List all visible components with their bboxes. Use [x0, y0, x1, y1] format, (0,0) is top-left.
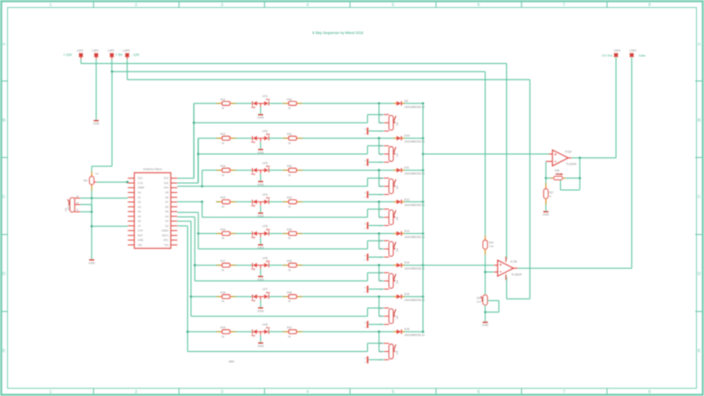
- pot P1 wiper stub: [384, 122, 389, 124]
- pot P6 wiper stub: [384, 280, 389, 282]
- frame row ticks: [2, 80, 8, 82]
- svg-text:4: 4: [306, 2, 309, 7]
- wire R11 bottom down: [91, 191, 93, 259]
- svg-text:5.0V: 5.0V: [138, 230, 143, 233]
- wire R10 A: [80, 197, 92, 199]
- resistor R13 row 2: [216, 137, 220, 139]
- wire jumper to pot E: [368, 130, 383, 132]
- wire LED to resistor R27: [269, 331, 283, 333]
- node row 2 wiper junction: [378, 137, 380, 139]
- wire row 5: [198, 233, 216, 235]
- svg-text:3.3V: 3.3V: [138, 182, 143, 185]
- jumper pin J1: [367, 128, 369, 135]
- wire feedback vertical: [579, 158, 581, 190]
- wire row 7 to LED: [236, 296, 252, 298]
- svg-text:TX0: TX0: [164, 244, 169, 247]
- svg-text:3: 3: [221, 2, 224, 7]
- svg-text:TL062P: TL062P: [566, 162, 577, 166]
- svg-text:E: E: [2, 348, 5, 353]
- pot P8 A riser: [367, 343, 369, 351]
- resistor R22 row 3: [283, 169, 287, 171]
- wire LED to resistor R23: [269, 201, 283, 203]
- svg-text:IC1B: IC1B: [510, 260, 517, 264]
- jumper pin J4: [367, 222, 369, 229]
- led pair LD6: [251, 263, 253, 267]
- svg-text:1: 1: [49, 389, 52, 394]
- wire junction down to wiper: [378, 332, 380, 352]
- pot P6 A riser: [367, 273, 369, 281]
- diode D12: [393, 201, 395, 203]
- node bus row 3: [422, 169, 424, 171]
- svg-text:4: 4: [306, 389, 309, 394]
- wire row 6: [195, 264, 216, 266]
- svg-text:R25: R25: [287, 259, 292, 263]
- resistor R19: [484, 235, 486, 237]
- wire row 3: [202, 169, 216, 171]
- svg-text:8 Step Sequencer by Wknot 2018: 8 Step Sequencer by Wknot 2018: [312, 31, 363, 35]
- svg-text:2: 2: [135, 2, 138, 7]
- wire row 6 to LED: [236, 264, 252, 266]
- ground LD7: [260, 300, 262, 307]
- led pair LD4: [251, 200, 253, 204]
- svg-text:GND2: GND2: [162, 230, 170, 233]
- potentiometer P5: [389, 242, 393, 257]
- wire diode to bus row 5: [405, 233, 423, 235]
- wire row 2 to junction: [303, 137, 394, 139]
- svg-text:R23: R23: [287, 196, 292, 200]
- pot P4 A riser: [367, 209, 369, 217]
- svg-text:RX1: RX1: [164, 239, 169, 242]
- svg-text:D10: D10: [404, 134, 410, 138]
- potentiometer P8: [389, 344, 393, 359]
- resistor R27: [545, 178, 547, 182]
- resistor R14 row 3: [216, 169, 220, 171]
- resistor R18 row 7: [216, 296, 220, 298]
- svg-text:GND: GND: [88, 261, 94, 265]
- wire row 2: [198, 137, 216, 139]
- svg-text:D12: D12: [404, 197, 410, 201]
- wire row 5 to junction: [303, 233, 394, 235]
- wire R11 wiper to arduino: [94, 181, 97, 183]
- svg-text:D9: D9: [404, 99, 408, 103]
- svg-text:GND: GND: [93, 122, 99, 126]
- wire diode to bus row 3: [405, 169, 423, 171]
- wire junction down to wiper: [378, 170, 380, 186]
- ground LD2: [260, 142, 262, 149]
- wire jumper to pot E: [368, 256, 383, 258]
- svg-text:GND: GND: [257, 116, 263, 120]
- svg-text:D12: D12: [164, 177, 169, 180]
- wire diode to bus row 6: [405, 264, 423, 266]
- svg-text:7: 7: [563, 2, 566, 7]
- jumper pin J6: [367, 286, 369, 293]
- svg-text:LSP4: LSP4: [614, 48, 621, 52]
- svg-text:GND: GND: [543, 213, 549, 217]
- ground LD3: [260, 174, 262, 181]
- wire IC1B output: [513, 267, 517, 269]
- node row 6 wiper junction: [378, 264, 380, 266]
- pot P4 wiper stub: [384, 216, 389, 218]
- wire row 4 to LED: [236, 201, 252, 203]
- svg-text:R17: R17: [221, 259, 226, 263]
- wire stage 3 from arduino pin: [177, 185, 202, 187]
- svg-text:GND: GND: [257, 150, 263, 154]
- svg-text:D13: D13: [404, 229, 410, 233]
- wire jumper to pot E: [368, 225, 383, 227]
- wire R28 wiper loop: [560, 180, 562, 190]
- svg-text:R19: R19: [221, 326, 226, 330]
- resistor R16 row 5: [216, 233, 220, 235]
- pot P8 wiper stub: [384, 351, 389, 353]
- wire junction down to wiper: [378, 234, 380, 249]
- wire junction down to wiper: [378, 103, 380, 122]
- ground LD1: [260, 107, 262, 114]
- node row 7 wiper junction: [378, 295, 380, 297]
- svg-text:D16: D16: [404, 327, 410, 331]
- IC1B power pin stubs: [505, 256, 507, 262]
- wire stage 6 from arduino pin: [177, 216, 195, 218]
- svg-text:R28: R28: [555, 169, 560, 172]
- wire jumper to pot E: [368, 359, 383, 361]
- svg-text:GND: GND: [257, 182, 263, 186]
- node row 4 wiper junction: [378, 201, 380, 203]
- node +5V tap: [111, 70, 113, 72]
- potentiometer P4: [389, 210, 393, 225]
- svg-text:R26: R26: [287, 291, 292, 295]
- node bus row 5: [422, 232, 424, 234]
- svg-text:R20: R20: [287, 97, 292, 101]
- svg-text:LSP3: LSP3: [108, 49, 115, 53]
- ground LD4: [260, 205, 262, 212]
- jumper pin J7: [367, 321, 369, 328]
- wire junction down to wiper: [378, 297, 380, 317]
- svg-text:LSP1: LSP1: [77, 49, 84, 53]
- trimmer R29: [483, 295, 487, 305]
- pot P1 A riser: [367, 115, 369, 123]
- svg-text:1N4148DO35-10: 1N4148DO35-10: [404, 333, 425, 337]
- wire diode to bus row 1: [405, 102, 423, 104]
- svg-text:6: 6: [477, 389, 480, 394]
- svg-text:1: 1: [49, 2, 52, 7]
- svg-text:GND: GND: [257, 214, 263, 218]
- svg-text:R13: R13: [221, 132, 226, 136]
- wire CV out vertical: [615, 57, 617, 158]
- wire jumper to pot E: [368, 161, 383, 163]
- wire node to R28: [546, 177, 550, 179]
- svg-text:5: 5: [392, 2, 395, 7]
- svg-text:R10: R10: [69, 205, 71, 210]
- svg-text:R16: R16: [221, 227, 226, 231]
- ground LD5: [260, 237, 262, 244]
- wire LSP2 to ground: [95, 57, 97, 59]
- wire ladder to arduino lower pin: [92, 225, 128, 227]
- jumper pin J2: [367, 159, 369, 166]
- resistor R26 row 7: [283, 296, 287, 298]
- frame column ticks: [93, 2, 95, 8]
- led pair LD8: [251, 330, 253, 334]
- svg-text:1N4148DO35-10: 1N4148DO35-10: [404, 105, 425, 109]
- pot P7 A riser: [367, 308, 369, 316]
- wire jumper to pot E: [368, 288, 383, 290]
- svg-text:1N4148DO35-10: 1N4148DO35-10: [404, 172, 425, 176]
- node row 8 wiper junction: [378, 331, 380, 333]
- trimmer R28: [550, 177, 552, 179]
- wire jumper to pot E: [368, 194, 383, 196]
- wire +5V down to trimmer ladder: [111, 72, 113, 167]
- potentiometer P2: [389, 147, 393, 162]
- wire R28 right to feedback: [566, 177, 580, 179]
- led pair LD1: [251, 101, 253, 105]
- wire CV bus vertical: [422, 103, 424, 331]
- wire +12V rail: [80, 57, 82, 59]
- node bus row 6: [422, 264, 424, 266]
- wire +5V rail down to R19: [484, 72, 486, 236]
- svg-text:D11: D11: [164, 182, 169, 185]
- wire row 1: [194, 102, 216, 104]
- wire LED to resistor R22: [269, 169, 283, 171]
- arduino pins: [128, 177, 135, 179]
- svg-text:+ 12V: + 12V: [63, 53, 73, 57]
- svg-text:D11: D11: [404, 166, 409, 170]
- pot P2 wiper stub: [384, 153, 389, 155]
- resistor R25 row 6: [283, 264, 287, 266]
- wire stage 4 from arduino pin: [177, 201, 202, 203]
- svg-text:RST: RST: [138, 234, 143, 237]
- wire IC1A inv branch: [545, 161, 547, 178]
- node R29 loop: [484, 311, 486, 313]
- wire row 1 to junction: [303, 102, 394, 104]
- diode D10: [393, 137, 395, 139]
- resistor R17 row 6: [216, 264, 220, 266]
- svg-text:TL062P: TL062P: [511, 272, 522, 276]
- svg-text:AREF: AREF: [138, 187, 145, 190]
- svg-text:8: 8: [648, 2, 651, 7]
- svg-text:R19: R19: [489, 242, 494, 245]
- resistor R15 row 4: [216, 201, 220, 203]
- wire junction down to wiper: [378, 138, 380, 154]
- led pair LD7: [251, 295, 253, 299]
- svg-text:GND: GND: [257, 246, 263, 250]
- potentiometer R10: [70, 198, 75, 212]
- wire row 7: [191, 296, 216, 298]
- wire ladder to arduino A-pin: [92, 197, 128, 199]
- wire stage 8 from arduino pin: [177, 225, 187, 227]
- wire R19 down to IC1B node: [484, 255, 486, 295]
- pot P5 A riser: [367, 241, 369, 249]
- ground LSP2: [94, 120, 99, 122]
- node row 1 wiper junction: [378, 102, 380, 104]
- wire R10 wiper: [80, 204, 92, 206]
- resistor R21 row 2: [283, 137, 287, 139]
- wire junction down to wiper: [378, 265, 380, 281]
- svg-text:R11: R11: [84, 180, 89, 183]
- wire R29 wiper loop: [487, 300, 499, 302]
- jumper pin J5: [367, 254, 369, 261]
- pot P3 A riser: [367, 178, 369, 186]
- node pot R10 bottom: [91, 211, 93, 213]
- svg-text:- 12V: - 12V: [131, 53, 140, 57]
- svg-text:RST1: RST1: [162, 234, 169, 237]
- svg-text:LSP2: LSP2: [92, 49, 99, 53]
- wire diode to bus row 4: [405, 201, 423, 203]
- svg-text:R27: R27: [287, 326, 292, 330]
- wire +5V rail: [111, 57, 113, 59]
- op-amp IC1B: [494, 264, 498, 266]
- svg-text:1N4148DO35-10: 1N4148DO35-10: [404, 267, 425, 271]
- svg-text:1N4148DO35-10: 1N4148DO35-10: [404, 203, 425, 207]
- node bus row 8: [422, 331, 424, 333]
- node CV bus tap: [422, 153, 424, 155]
- svg-text:2: 2: [135, 389, 138, 394]
- svg-text:LD6: LD6: [262, 256, 268, 260]
- diode D16: [393, 331, 395, 333]
- wire diode to bus row 2: [405, 137, 423, 139]
- svg-text:1N4148DO35-10: 1N4148DO35-10: [404, 235, 425, 239]
- svg-text:LD2: LD2: [262, 129, 268, 133]
- wire row 2 to LED: [236, 137, 252, 139]
- resistor R12 row 1: [216, 102, 220, 104]
- wire LED to resistor R24: [269, 233, 283, 235]
- jumper pin J8: [367, 356, 369, 363]
- resistor R27 row 8: [283, 331, 287, 333]
- wire diode to bus row 8: [405, 331, 423, 333]
- wire row 3 to junction: [303, 169, 394, 171]
- ground IC1B divider: [483, 321, 488, 323]
- resistor R20 row 1: [283, 102, 287, 104]
- svg-text:R21: R21: [287, 132, 292, 136]
- node bus row 4: [422, 201, 424, 203]
- wire LED to resistor R25: [269, 264, 283, 266]
- node feedback to R28: [579, 177, 581, 179]
- svg-text:3: 3: [221, 389, 224, 394]
- R28 adjust arrow: [556, 173, 561, 175]
- node bus row 7: [422, 295, 424, 297]
- svg-text:R18: R18: [221, 291, 226, 295]
- node pot R10 top: [91, 197, 93, 199]
- wire stage 2 from arduino pin: [177, 182, 198, 184]
- diode D15: [393, 296, 395, 298]
- op-amp IC1A: [549, 153, 553, 155]
- node row 3 wiper junction: [378, 169, 380, 171]
- wire row 1 to LED: [236, 102, 252, 104]
- wire row 3 to LED: [236, 169, 252, 171]
- diode D11: [393, 169, 395, 171]
- svg-text:R27: R27: [549, 193, 554, 195]
- arduino nano IC1 box: [134, 173, 170, 249]
- ground LD8: [260, 335, 262, 342]
- wire R27 to ground: [545, 205, 547, 211]
- ground trimmer ladder: [89, 259, 94, 261]
- svg-text:7: 7: [563, 389, 566, 394]
- node IC1B inverting input: [484, 271, 486, 273]
- wire row 8: [188, 331, 216, 333]
- svg-text:5: 5: [392, 389, 395, 394]
- wire row 6 to junction: [303, 264, 394, 266]
- node bus row 2: [422, 137, 424, 139]
- wire row 8 to junction: [303, 331, 394, 333]
- svg-text:GND: GND: [482, 323, 488, 327]
- pot P5 wiper stub: [384, 248, 389, 250]
- svg-text:VIN: VIN: [138, 244, 142, 247]
- node row 5 wiper junction: [378, 232, 380, 234]
- wire LED to resistor R21: [269, 137, 283, 139]
- resistor R23 row 4: [283, 201, 287, 203]
- svg-text:R29: R29: [477, 298, 482, 300]
- svg-text:E: E: [698, 348, 701, 353]
- ground R27: [543, 211, 548, 213]
- wire jumper to pot E: [368, 323, 383, 325]
- pot P3 wiper stub: [384, 185, 389, 187]
- node IC1A feedback: [579, 157, 581, 159]
- wire stage 1 from arduino pin: [177, 177, 194, 179]
- wire stage 7 from arduino pin: [177, 220, 191, 222]
- svg-text:AB3: AB3: [229, 360, 235, 364]
- wire row 7 to junction: [303, 296, 394, 298]
- wire IC1B V- down loop: [506, 277, 508, 299]
- svg-text:LD3: LD3: [262, 161, 268, 165]
- ground LD6: [260, 269, 262, 276]
- potentiometer P3: [389, 179, 393, 194]
- wire row 8 to LED: [236, 331, 252, 333]
- wire R10 E: [80, 211, 92, 213]
- led pair LD5: [251, 231, 253, 235]
- svg-text:R14: R14: [221, 164, 226, 168]
- wire node to IC1B inv input: [485, 271, 494, 273]
- trimmer R11: [91, 171, 93, 173]
- svg-text:LD8: LD8: [262, 322, 268, 326]
- wire LED to resistor R20: [269, 102, 283, 104]
- wire R29 to ground: [484, 305, 486, 312]
- svg-text:GND: GND: [257, 277, 263, 281]
- wire -12V rail: [126, 57, 128, 59]
- svg-text:6: 6: [477, 2, 480, 7]
- svg-text:+ 5V: + 5V: [115, 53, 123, 57]
- node bus row 1: [422, 102, 424, 104]
- wire bus row6 to IC1B input: [423, 264, 494, 266]
- diode D13: [393, 233, 395, 235]
- svg-text:R24: R24: [287, 227, 292, 231]
- wire LED to resistor R26: [269, 296, 283, 298]
- resistor R19 row 8: [216, 331, 220, 333]
- wire IC1A output: [568, 157, 571, 159]
- svg-text:B: B: [2, 118, 5, 123]
- led pair LD3: [251, 168, 253, 172]
- node R27 R28 junction: [545, 177, 547, 179]
- svg-text:D10: D10: [164, 187, 169, 190]
- resistor R24 row 5: [283, 233, 287, 235]
- svg-text:LD4: LD4: [262, 192, 268, 196]
- svg-text:Arduino Nano: Arduino Nano: [143, 167, 162, 171]
- svg-text:CV Out: CV Out: [602, 53, 612, 57]
- svg-text:D13: D13: [138, 177, 143, 180]
- svg-text:LD7: LD7: [262, 287, 268, 291]
- svg-text:8: 8: [648, 389, 651, 394]
- wire row 4 to junction: [303, 201, 394, 203]
- pot P7 wiper stub: [384, 315, 389, 317]
- svg-text:LSP5: LSP5: [630, 48, 637, 52]
- wire +12V rail down IC1B V+: [506, 64, 508, 261]
- diode D9: [393, 102, 395, 104]
- svg-text:GND: GND: [138, 239, 144, 242]
- diode D14: [393, 264, 395, 266]
- svg-text:LSP6: LSP6: [123, 49, 130, 53]
- svg-text:D14: D14: [404, 261, 410, 265]
- pot P2 A riser: [367, 146, 369, 154]
- wire gate vertical: [631, 57, 633, 268]
- wire CV bus to IC1A input: [423, 153, 549, 155]
- potentiometer P7: [389, 309, 393, 324]
- potentiometer P6: [389, 274, 393, 289]
